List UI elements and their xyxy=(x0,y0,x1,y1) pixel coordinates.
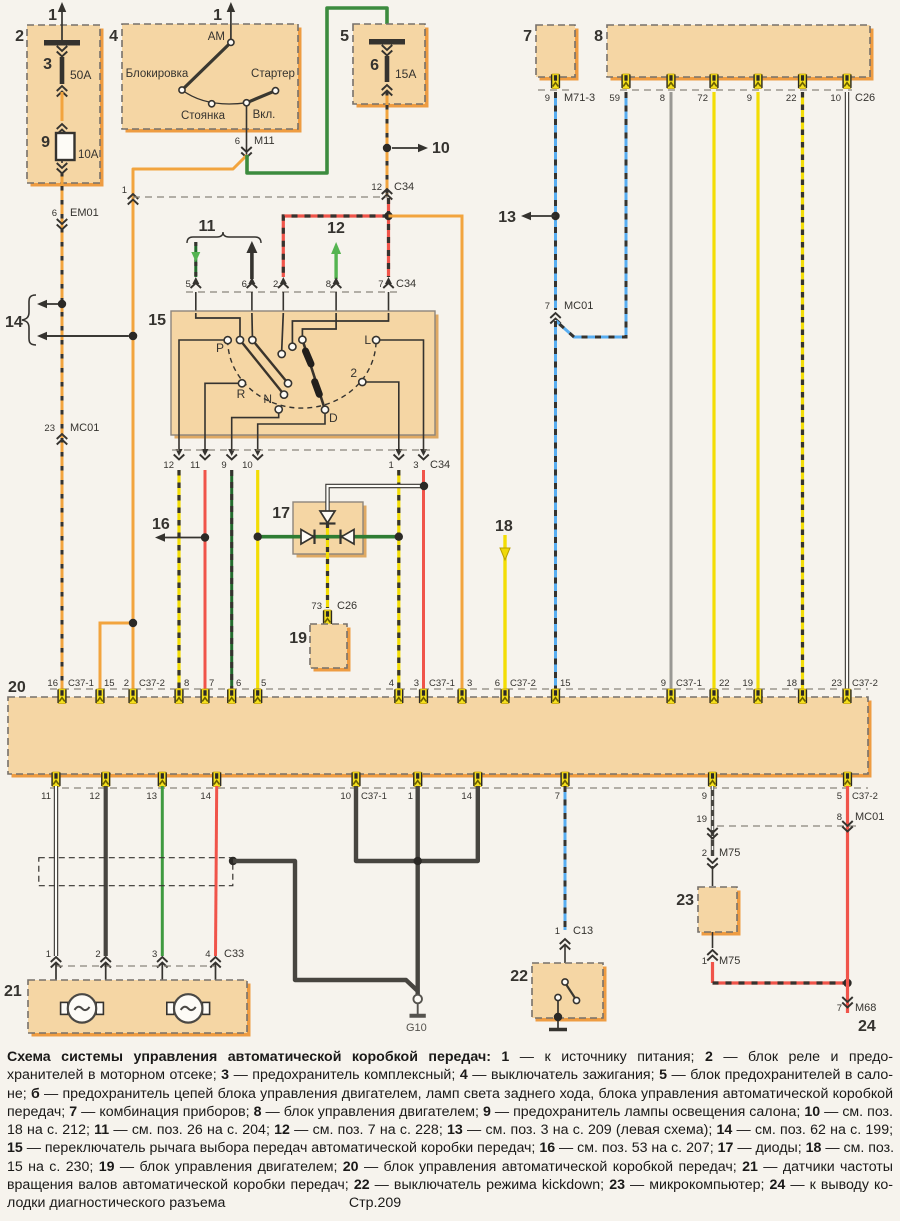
svg-text:3: 3 xyxy=(413,460,418,471)
svg-text:Стоянка: Стоянка xyxy=(181,110,226,122)
svg-text:M68: M68 xyxy=(855,1002,876,1014)
svg-text:50A: 50A xyxy=(70,68,91,82)
svg-text:11: 11 xyxy=(199,218,216,235)
svg-text:M75: M75 xyxy=(719,955,740,967)
svg-text:4: 4 xyxy=(389,678,394,689)
svg-text:14: 14 xyxy=(5,314,23,331)
svg-text:1: 1 xyxy=(48,7,57,24)
svg-text:2: 2 xyxy=(273,279,278,290)
svg-text:MC01: MC01 xyxy=(70,422,99,434)
svg-text:1: 1 xyxy=(702,956,707,967)
svg-text:72: 72 xyxy=(697,93,708,104)
svg-text:7: 7 xyxy=(523,28,532,45)
svg-text:22: 22 xyxy=(719,678,730,689)
svg-text:73: 73 xyxy=(311,601,322,612)
svg-text:3: 3 xyxy=(43,56,52,73)
svg-text:4: 4 xyxy=(205,949,210,960)
svg-text:23: 23 xyxy=(831,678,842,689)
svg-text:19: 19 xyxy=(289,630,307,647)
svg-text:10: 10 xyxy=(432,140,450,157)
svg-text:R: R xyxy=(237,387,246,401)
svg-text:C13: C13 xyxy=(573,925,593,937)
svg-text:8: 8 xyxy=(594,28,603,45)
svg-text:2: 2 xyxy=(124,678,129,689)
svg-text:19: 19 xyxy=(742,678,753,689)
svg-text:15: 15 xyxy=(148,312,166,329)
svg-text:1: 1 xyxy=(213,7,222,24)
svg-text:12: 12 xyxy=(327,220,345,237)
svg-text:1: 1 xyxy=(555,926,560,937)
svg-text:10: 10 xyxy=(242,460,253,471)
svg-text:18: 18 xyxy=(495,518,513,535)
svg-text:C37-2: C37-2 xyxy=(852,678,878,689)
svg-text:2: 2 xyxy=(702,848,707,859)
svg-text:1: 1 xyxy=(46,949,51,960)
svg-text:11: 11 xyxy=(190,460,200,471)
svg-text:16: 16 xyxy=(47,678,58,689)
svg-text:7: 7 xyxy=(837,1003,842,1014)
svg-text:9: 9 xyxy=(661,678,666,689)
svg-text:23: 23 xyxy=(44,423,55,434)
svg-text:1: 1 xyxy=(122,185,127,196)
svg-text:C37-2: C37-2 xyxy=(852,791,878,802)
svg-text:5: 5 xyxy=(186,279,191,290)
svg-text:C26: C26 xyxy=(337,600,357,612)
svg-text:14: 14 xyxy=(461,791,472,802)
svg-text:EM01: EM01 xyxy=(70,207,99,219)
svg-text:5: 5 xyxy=(837,791,842,802)
svg-text:7: 7 xyxy=(209,678,214,689)
svg-text:19: 19 xyxy=(696,814,707,825)
svg-text:8: 8 xyxy=(326,279,331,290)
svg-text:L: L xyxy=(364,333,371,347)
svg-text:15A: 15A xyxy=(395,67,416,81)
svg-text:Вкл.: Вкл. xyxy=(253,109,276,121)
svg-text:M71-3: M71-3 xyxy=(564,92,595,104)
svg-text:23: 23 xyxy=(676,892,694,909)
svg-text:АМ: АМ xyxy=(208,31,225,43)
svg-text:D: D xyxy=(329,411,338,425)
svg-text:C37-1: C37-1 xyxy=(429,678,455,689)
svg-text:16: 16 xyxy=(152,516,170,533)
svg-text:59: 59 xyxy=(609,93,620,104)
svg-text:15: 15 xyxy=(560,678,571,689)
svg-text:22: 22 xyxy=(786,93,797,104)
svg-text:21: 21 xyxy=(4,983,22,1000)
svg-text:14: 14 xyxy=(200,791,211,802)
svg-text:C34: C34 xyxy=(396,278,416,290)
svg-text:P: P xyxy=(216,341,224,355)
svg-text:22: 22 xyxy=(510,968,528,985)
svg-text:1: 1 xyxy=(389,460,394,471)
svg-text:7: 7 xyxy=(378,279,383,290)
svg-text:18: 18 xyxy=(786,678,797,689)
svg-text:7: 7 xyxy=(545,301,550,312)
svg-text:12: 12 xyxy=(89,791,100,802)
svg-text:13: 13 xyxy=(498,209,516,226)
svg-text:C37-2: C37-2 xyxy=(139,678,165,689)
svg-text:8: 8 xyxy=(837,812,842,823)
svg-text:6: 6 xyxy=(52,208,57,219)
svg-text:9: 9 xyxy=(221,460,226,471)
svg-text:13: 13 xyxy=(146,791,157,802)
svg-text:1: 1 xyxy=(408,791,413,802)
svg-text:C34: C34 xyxy=(430,459,450,471)
svg-text:9: 9 xyxy=(545,93,550,104)
svg-text:6: 6 xyxy=(242,279,247,290)
svg-text:10: 10 xyxy=(830,93,841,104)
svg-text:9: 9 xyxy=(747,93,752,104)
svg-text:C33: C33 xyxy=(224,948,244,960)
svg-text:15: 15 xyxy=(104,678,115,689)
svg-text:M11: M11 xyxy=(254,135,275,147)
svg-text:C37-1: C37-1 xyxy=(361,791,387,802)
svg-text:M75: M75 xyxy=(719,847,740,859)
svg-text:10A: 10A xyxy=(78,149,99,161)
svg-text:10: 10 xyxy=(340,791,351,802)
svg-text:C37-1: C37-1 xyxy=(68,678,94,689)
svg-text:3: 3 xyxy=(152,949,157,960)
svg-text:MC01: MC01 xyxy=(855,811,884,823)
svg-text:C26: C26 xyxy=(855,92,875,104)
svg-text:12: 12 xyxy=(371,182,382,193)
svg-text:2: 2 xyxy=(15,28,24,45)
svg-text:12: 12 xyxy=(163,460,174,471)
svg-text:N: N xyxy=(263,392,272,406)
svg-text:Блокировка: Блокировка xyxy=(126,68,189,80)
svg-text:11: 11 xyxy=(41,791,51,802)
svg-text:6: 6 xyxy=(235,136,240,147)
svg-text:Стартер: Стартер xyxy=(251,68,295,80)
svg-text:4: 4 xyxy=(109,28,118,45)
svg-text:C34: C34 xyxy=(394,181,414,193)
svg-text:5: 5 xyxy=(340,28,349,45)
svg-text:6: 6 xyxy=(370,57,379,74)
svg-text:17: 17 xyxy=(272,505,290,522)
svg-text:2: 2 xyxy=(350,366,357,380)
svg-text:MC01: MC01 xyxy=(564,300,593,312)
svg-text:3: 3 xyxy=(414,678,419,689)
svg-text:9: 9 xyxy=(702,791,707,802)
svg-text:2: 2 xyxy=(95,949,100,960)
svg-text:8: 8 xyxy=(660,93,665,104)
svg-text:5: 5 xyxy=(261,678,266,689)
svg-text:7: 7 xyxy=(555,791,560,802)
svg-text:C37-2: C37-2 xyxy=(510,678,536,689)
svg-text:9: 9 xyxy=(41,134,50,151)
svg-text:6: 6 xyxy=(236,678,241,689)
svg-text:8: 8 xyxy=(184,678,189,689)
svg-text:G10: G10 xyxy=(406,1022,427,1034)
svg-text:3: 3 xyxy=(467,678,472,689)
svg-text:6: 6 xyxy=(495,678,500,689)
svg-text:20: 20 xyxy=(8,679,26,696)
svg-text:C37-1: C37-1 xyxy=(676,678,702,689)
svg-text:24: 24 xyxy=(858,1018,876,1035)
